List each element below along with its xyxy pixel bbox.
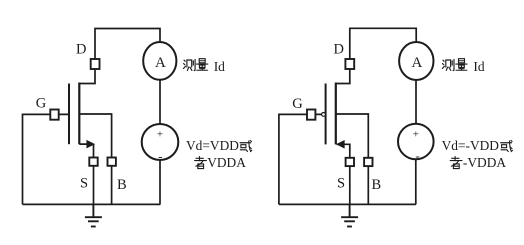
- wire ammeter to source (left): [159, 80, 161, 124]
- svg-text:Vd=VDD: Vd=VDD: [186, 138, 239, 153]
- wire bottom (right): [279, 203, 416, 205]
- wire drain lead (right): [336, 69, 350, 84]
- transistor M1 channel bar: [78, 83, 80, 145]
- wire gate lead (right): [279, 114, 322, 204]
- transistor M2 channel bar: [335, 83, 337, 145]
- voltage source V1 (left): [142, 124, 179, 160]
- svg-text:S: S: [337, 176, 345, 192]
- label measure Id (right): [442, 59, 484, 74]
- wire top right circuit: [350, 28, 416, 59]
- svg-text:D: D: [334, 42, 344, 58]
- wire bottom (left): [23, 203, 161, 205]
- wire ammeter to source (right): [415, 80, 417, 124]
- label VDDA (left line2): [195, 155, 247, 170]
- label Vd=-VDD or (right line1): [442, 138, 513, 153]
- wire gate lead (left): [23, 114, 69, 204]
- pad S (right): [346, 158, 354, 166]
- ammeter U2 (right): [399, 42, 433, 80]
- svg-text:A: A: [155, 55, 166, 71]
- svg-text:D: D: [76, 42, 86, 58]
- wire source to bottom (left): [159, 160, 161, 204]
- svg-text:VDDA: VDDA: [207, 155, 246, 170]
- transistor M1 source arrow: [87, 140, 95, 147]
- pad B (left): [108, 158, 116, 166]
- transistor M2 gate bar: [325, 84, 327, 145]
- pad D (left): [91, 59, 100, 69]
- svg-text:Id: Id: [473, 59, 484, 74]
- svg-text:G: G: [36, 96, 47, 112]
- ground (right): [341, 204, 358, 226]
- wire B to bottom (left): [111, 166, 113, 205]
- label measure Id (left): [184, 59, 226, 74]
- ammeter U1 (left): [143, 42, 176, 80]
- svg-text:B: B: [117, 177, 127, 193]
- svg-text:Id: Id: [214, 59, 225, 74]
- wire source to bottom (right): [415, 159, 417, 204]
- wire B to bottom (right): [367, 166, 369, 204]
- wire S to bottom (right): [349, 166, 351, 204]
- pad B (right): [364, 158, 372, 166]
- svg-text:Vd=-VDD: Vd=-VDD: [442, 138, 500, 153]
- gate bubble (right): [322, 113, 326, 117]
- wire top left circuit: [95, 29, 160, 60]
- pad G (left): [50, 110, 58, 120]
- wire body tap (left): [80, 114, 112, 158]
- wire body tap (right): [337, 114, 369, 158]
- svg-text:+: +: [157, 129, 163, 141]
- svg-text:G: G: [292, 96, 303, 112]
- pad G (right): [307, 110, 315, 120]
- wire drain lead (left): [79, 69, 95, 84]
- ground (left): [85, 204, 102, 226]
- svg-text:A: A: [411, 55, 422, 71]
- svg-text:S: S: [80, 176, 88, 192]
- label -VDDA (right line2): [450, 155, 506, 170]
- pad D (right): [345, 59, 354, 69]
- wire source lead (left): [79, 144, 93, 157]
- pad S (left): [89, 158, 97, 166]
- wire S to bottom (left): [93, 166, 95, 205]
- label Vd=VDD or (left line1): [186, 138, 252, 153]
- transistor M1 gate bar: [68, 84, 70, 145]
- voltage source V2 (right): [398, 124, 434, 160]
- svg-text:B: B: [371, 177, 381, 193]
- svg-text:+: +: [413, 128, 419, 140]
- wire source lead (right): [337, 144, 350, 158]
- transistor M2 source arrow: [337, 141, 345, 148]
- svg-text:-VDDA: -VDDA: [463, 155, 506, 170]
